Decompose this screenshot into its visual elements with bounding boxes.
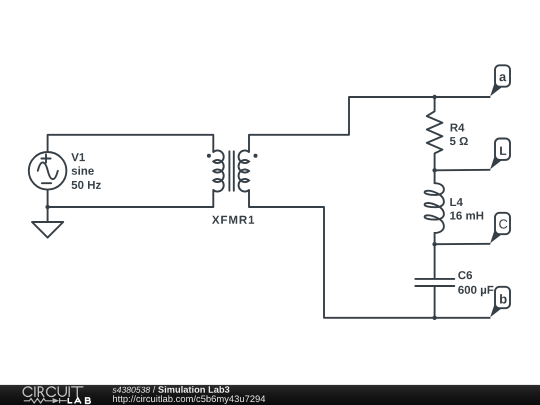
CircuitLab logo CIRCUIT wordmark [23,387,83,397]
transformer XFMR1 secondary winding [239,150,249,191]
net flag b tail [490,303,503,317]
phase dot primary [207,154,211,158]
label C6 value [458,286,493,296]
wire node L to flag L [435,169,491,172]
capacitor C6 plates [415,279,454,286]
label V1 value [72,181,101,189]
wire primary top [48,135,214,152]
net flag b box [495,287,510,308]
label L4 name [450,198,463,206]
junction V1 bottom [45,205,49,209]
junction node a [432,95,436,99]
inductor L4 [425,170,444,244]
wire node c to flag c [435,243,491,245]
net flag c box [495,213,510,234]
capacitor C6 bottom lead [434,287,436,318]
transformer XFMR1 primary winding [213,150,223,191]
capacitor C6 top lead [434,244,436,278]
junction node b [432,316,436,320]
label V1 name [71,153,85,161]
junction node L [432,168,436,172]
ground [32,222,63,238]
wire secondary bottom to node b [249,190,490,318]
net flag L box [495,139,510,160]
net flag a tail [490,82,503,96]
flag letter c [499,219,507,228]
flag letter L [500,147,506,155]
wire primary bottom [48,190,214,207]
label XFMR1 name [212,216,254,224]
footer title separator [153,386,156,393]
junction node c [432,242,436,246]
transformer core [229,151,233,190]
phase dot secondary [254,154,258,158]
footer url [113,395,265,404]
label C6 name [458,271,472,279]
label V1 type [72,166,94,174]
flag letter b [500,294,507,304]
net flag c tail [490,229,503,243]
resistor R4 [427,97,443,170]
voltage source V1 [29,152,67,190]
footer title name bold [158,386,229,393]
wire secondary top to node a [249,97,490,152]
net flag L tail [490,155,503,169]
net flag a box [495,65,510,86]
label L4 value [450,212,483,220]
label R4 name [451,124,465,132]
label R4 value [450,137,468,145]
wire V1 to ground [47,190,49,222]
logo resistor-diode squiggle [24,398,67,403]
flag letter a [499,74,506,81]
logo LAB letters [68,398,90,404]
footer title id italic [112,387,150,393]
